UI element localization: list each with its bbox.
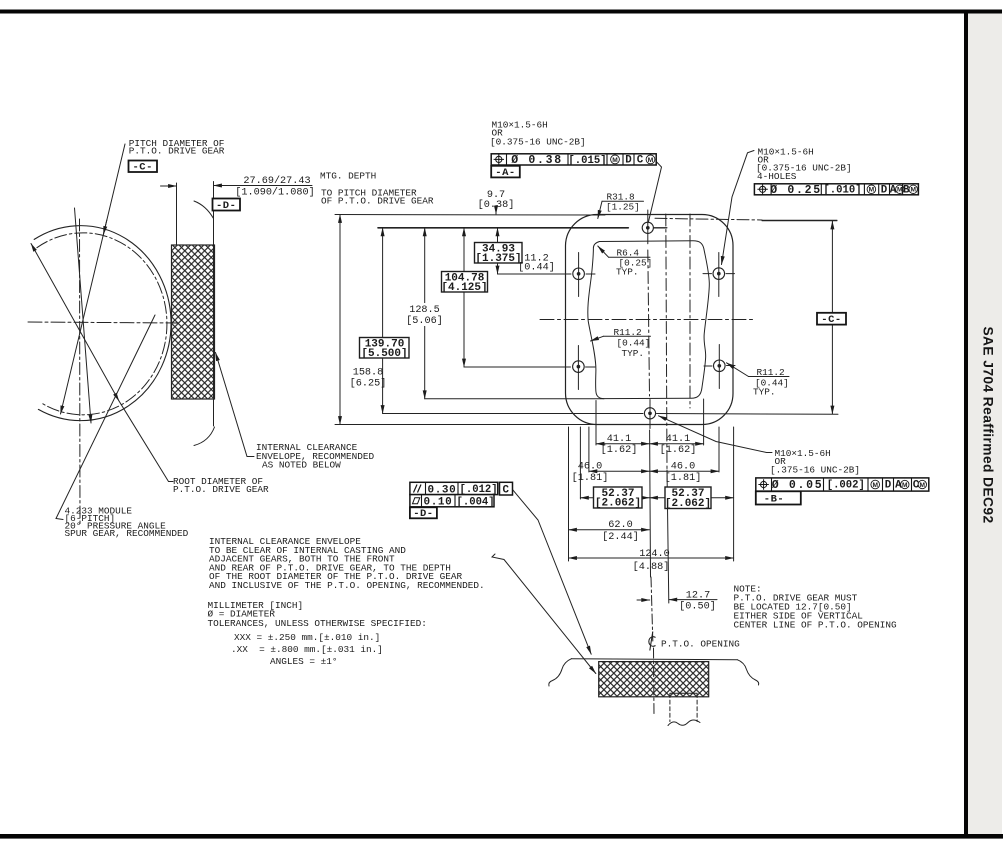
- root diameter arc: [34, 226, 171, 421]
- svg-text:[2.44]: [2.44]: [602, 531, 639, 543]
- svg-text:[4.125]: [4.125]: [441, 282, 487, 294]
- leader C box to section view: [512, 489, 591, 655]
- pitch leader arrowhead on arc: [103, 220, 106, 235]
- shaft break squiggle: [668, 720, 700, 726]
- svg-text:128.5: 128.5: [409, 305, 440, 316]
- dim 12.7 left arrow: [637, 599, 650, 601]
- svg-text:M: M: [902, 482, 908, 489]
- svg-text:[.010]: [.010]: [823, 185, 861, 197]
- upper-left hole vertical: [578, 253, 580, 297]
- gear view labels: [65, 138, 434, 539]
- svg-text:[0.44]: [0.44]: [617, 338, 651, 349]
- svg-text:OF P.T.O. DRIVE GEAR: OF P.T.O. DRIVE GEAR: [321, 196, 434, 207]
- pitch diameter leader line: [61, 144, 126, 414]
- wall top line: [571, 659, 737, 660]
- svg-text:4-HOLES: 4-HOLES: [757, 171, 797, 182]
- svg-text:TOLERANCES, UNLESS OTHERWISE S: TOLERANCES, UNLESS OTHERWISE SPECIFIED:: [208, 618, 427, 629]
- svg-text:TYP.: TYP.: [616, 267, 639, 278]
- svg-text:-A-: -A-: [495, 167, 515, 179]
- PTO CL lower dash-dot: [651, 577, 653, 641]
- view horizontal centerline: [540, 319, 753, 321]
- upper-right hole ticks: [703, 273, 735, 275]
- circled M modifiers frame B: [867, 185, 917, 194]
- ext line 46.0 left: [588, 427, 590, 472]
- boss bottom edge extension: [335, 424, 597, 426]
- ext line 46 right: [718, 427, 720, 472]
- gear band right line: [689, 214, 691, 408]
- svg-text:.XX = ±.800 mm.[±.031 in.]: .XX = ±.800 mm.[±.031 in.]: [231, 644, 383, 655]
- P.T.O. opening boss outline (rounded rect): [566, 215, 734, 425]
- ext line 62/124 left: [568, 427, 570, 561]
- svg-text:-C-: -C-: [132, 162, 152, 174]
- svg-text:[5.500]: [5.500]: [361, 348, 407, 360]
- upper-right hole vertical: [718, 253, 720, 297]
- svg-text:[0.38]: [0.38]: [478, 199, 515, 211]
- dim 41.1 right: [650, 443, 704, 445]
- 34.93 line to upper-left hole: [498, 273, 572, 275]
- box 104.78: [442, 272, 488, 293]
- radius labels: [606, 192, 789, 398]
- svg-text:TYP.: TYP.: [753, 387, 776, 398]
- mounting wall line (-D- face): [213, 182, 215, 427]
- datum -C- right: [817, 313, 846, 325]
- svg-text:CENTER LINE OF P.T.O. OPENING: CENTER LINE OF P.T.O. OPENING: [734, 620, 898, 631]
- circled M modifiers frame C: [871, 480, 927, 489]
- pitch line solid right part: [762, 219, 837, 221]
- svg-text:Ø 0.05: Ø 0.05: [772, 479, 824, 492]
- position symbol frame B: [757, 184, 767, 194]
- svg-text:XXX = ±.250 mm.[±.010 in.]: XXX = ±.250 mm.[±.010 in.]: [234, 632, 380, 643]
- svg-text:M: M: [897, 187, 903, 194]
- svg-text:[1.25]: [1.25]: [606, 202, 640, 213]
- svg-text:C: C: [503, 484, 510, 496]
- svg-text:M: M: [648, 157, 654, 164]
- svg-text:TYP.: TYP.: [622, 348, 645, 359]
- right border line: [964, 10, 968, 839]
- section centerline: [653, 648, 656, 716]
- pitch diameter arc: [37, 233, 167, 415]
- gear position centerline: [666, 214, 667, 470]
- datum -C- left: [129, 161, 158, 173]
- bottom notes: [208, 536, 898, 667]
- svg-text:[.015]: [.015]: [568, 155, 606, 167]
- svg-text:M: M: [910, 187, 916, 194]
- svg-text:[2.062]: [2.062]: [665, 498, 711, 510]
- hidden shaft line left: [669, 694, 671, 722]
- center ext line: [649, 430, 652, 577]
- leader R11.2 left: [591, 336, 604, 341]
- dim 46.0 left: [589, 470, 650, 472]
- PTO CL dash-dot upper: [648, 250, 650, 396]
- svg-text:ANGLES = ±1°: ANGLES = ±1°: [270, 656, 338, 667]
- svg-text:46.0: 46.0: [578, 462, 602, 473]
- svg-text:[.004]: [.004]: [457, 496, 495, 508]
- -C- top horizontal: [762, 220, 837, 222]
- svg-text:M: M: [869, 187, 875, 194]
- leader -A- frame to top hole: [648, 162, 661, 223]
- svg-text:SPUR GEAR, RECOMMENDED: SPUR GEAR, RECOMMENDED: [65, 528, 189, 539]
- svg-text:MTG. DEPTH: MTG. DEPTH: [320, 171, 376, 182]
- R6.4 label bar: [609, 256, 651, 258]
- svg-text:M: M: [920, 482, 926, 489]
- dim line 104.78: [463, 228, 465, 367]
- GDT FRAME B (position 0.25 4 holes): [754, 184, 918, 195]
- svg-text:C: C: [637, 155, 644, 167]
- dim line 34.93: [497, 228, 499, 274]
- dim line 128.5: [424, 228, 426, 399]
- bolt hole upper left: [573, 268, 585, 280]
- svg-text:M: M: [612, 157, 618, 164]
- lower-right hole ticks: [704, 365, 735, 368]
- tick right of top hole: [654, 227, 667, 229]
- pitch line across opening (dash-dot): [655, 218, 762, 220]
- unboxed stacked dims: [235, 175, 716, 613]
- leader R11.2 right: [727, 363, 749, 377]
- bottom hole line right to -C-: [657, 413, 839, 416]
- ext line 52.37 left: [579, 427, 581, 499]
- svg-text:[1.62]: [1.62]: [660, 444, 697, 456]
- leader R31.8: [598, 201, 602, 218]
- svg-text:41.1: 41.1: [607, 434, 631, 445]
- svg-text:R11.2: R11.2: [614, 327, 642, 338]
- dim 124.0: [569, 557, 734, 559]
- svg-text:[4.88]: [4.88]: [633, 561, 670, 573]
- svg-text:[0.44]: [0.44]: [518, 262, 555, 274]
- GDT FRAME A (position 0.38): [491, 154, 656, 165]
- svg-text:0.10: 0.10: [424, 497, 453, 509]
- tick right of upper-left hole: [586, 273, 595, 275]
- mtg depth dim line right: [214, 185, 313, 187]
- -C- dim vertical: [831, 221, 833, 414]
- envelope bottom line: [425, 398, 604, 400]
- ext line 124 right: [733, 427, 735, 561]
- svg-text:[1.62]: [1.62]: [601, 444, 638, 456]
- gear vertical centerline: [79, 219, 82, 525]
- DATUM BOXES: [129, 161, 847, 519]
- svg-text:[2.062]: [2.062]: [595, 498, 641, 510]
- dim line 158.8: [339, 215, 341, 425]
- bolt hole upper right: [713, 268, 725, 280]
- R31.8 label bar: [602, 200, 644, 202]
- internal clearance envelope contour: [588, 241, 710, 399]
- svg-text:[0.50]: [0.50]: [679, 601, 716, 613]
- gear horizontal centerline: [28, 322, 178, 323]
- svg-text:[1.375]: [1.375]: [475, 253, 521, 265]
- 104.78 line to lower-left hole: [464, 366, 571, 368]
- leader bottom-right note to bottom hole: [659, 416, 773, 453]
- svg-text:-C-: -C-: [821, 314, 841, 326]
- mtg depth dim arrow left: [161, 185, 177, 187]
- GDT FRAME C (position 0.05): [756, 478, 929, 491]
- bolt hole lower right: [714, 360, 726, 372]
- svg-text:AS NOTED BELOW: AS NOTED BELOW: [262, 460, 341, 471]
- centerline symbol PTO opening: [649, 632, 656, 651]
- dim 62.0: [569, 529, 650, 531]
- svg-text:R11.2: R11.2: [757, 367, 785, 378]
- wall break left: [549, 659, 572, 686]
- datum -D- gear: [213, 199, 241, 211]
- leader 4-HOLES note to upper-right hole: [722, 151, 755, 265]
- text 128.5 (white bg): [406, 303, 443, 326]
- svg-text:[.002]: [.002]: [827, 480, 865, 492]
- svg-text:[5.06]: [5.06]: [406, 315, 443, 327]
- top border bar: [0, 10, 1002, 14]
- gear left face extension: [176, 183, 178, 245]
- svg-text:Ø 0.38: Ø 0.38: [511, 154, 563, 167]
- leader internal clearance note to hatch: [216, 353, 255, 457]
- 9.7 down arrow: [495, 206, 497, 215]
- box 139.70: [360, 338, 410, 359]
- gear tooth hatched section: [172, 245, 215, 399]
- bolt hole bottom center: [644, 408, 655, 419]
- position symbol frame A: [494, 154, 504, 164]
- leader big note to section hatch: [492, 554, 596, 674]
- svg-text:12.7: 12.7: [686, 591, 710, 602]
- svg-text:[.375-16 UNC-2B]: [.375-16 UNC-2B]: [770, 465, 860, 476]
- ext line 41.1 right: [703, 399, 705, 445]
- parallelism symbol: [414, 485, 422, 493]
- bottom border bar: [0, 834, 1003, 839]
- boss top edge extension line: [335, 214, 605, 217]
- thread notes: [490, 120, 860, 476]
- gear position extension solid: [667, 470, 669, 603]
- wall break arc top: [194, 201, 214, 219]
- svg-text:AND INCLUSIVE OF THE P.T.O. OP: AND INCLUSIVE OF THE P.T.O. OPENING, REC…: [209, 580, 485, 591]
- svg-text:D: D: [885, 479, 892, 491]
- svg-text:[1.090/1.080]: [1.090/1.080]: [235, 187, 314, 199]
- dim line 139.70: [382, 228, 384, 414]
- svg-text:P.T.O. DRIVE GEAR: P.T.O. DRIVE GEAR: [173, 484, 269, 495]
- R11.2 right label bar: [749, 376, 790, 378]
- box 34.93: [475, 243, 523, 264]
- bottom hole line left: [383, 413, 643, 415]
- svg-text:158.8: 158.8: [353, 368, 384, 379]
- svg-text:P.T.O. DRIVE GEAR: P.T.O. DRIVE GEAR: [129, 146, 225, 157]
- dim 41.1 left: [596, 443, 650, 445]
- svg-text:D: D: [881, 184, 888, 196]
- ext line 41.1 left: [595, 401, 597, 446]
- section hatched wall: [599, 662, 709, 697]
- dim 52.37 right: [650, 497, 734, 499]
- lower-right hole vertical: [718, 345, 720, 389]
- svg-text:Ø 0.25: Ø 0.25: [770, 184, 822, 197]
- svg-text:46.0: 46.0: [671, 462, 695, 473]
- datum -B-: [756, 491, 801, 504]
- box 52.37 right: [665, 487, 711, 509]
- lower-left hole vertical: [577, 346, 579, 390]
- leader R6.4: [598, 246, 609, 257]
- svg-text:-B-: -B-: [764, 494, 784, 506]
- svg-text:27.69/27.43: 27.69/27.43: [243, 175, 310, 187]
- circled M modifiers frame A: [611, 155, 655, 164]
- svg-text:[.012]: [.012]: [460, 484, 498, 496]
- dim 46.0 right: [650, 470, 720, 472]
- dim 12.7 text bar: [669, 599, 717, 601]
- R11.2 left label bar: [603, 335, 650, 337]
- svg-text:SAE J704 Reaffirmed DEC92: SAE J704 Reaffirmed DEC92: [981, 326, 996, 523]
- position symbol frame C: [758, 479, 768, 489]
- svg-text:P.T.O. OPENING: P.T.O. OPENING: [661, 639, 740, 650]
- top hole vertical: [647, 210, 649, 244]
- dim 52.37 left: [580, 497, 649, 499]
- root diameter leader line: [31, 244, 119, 402]
- DIMENSION BOXES: [360, 243, 712, 509]
- module note leader: [56, 315, 155, 520]
- pressure angle line: [75, 208, 92, 423]
- svg-text:[1.81]: [1.81]: [572, 472, 609, 484]
- datum -D- frame: [410, 507, 437, 518]
- wall break right: [737, 660, 758, 685]
- svg-text:41.1: 41.1: [666, 434, 690, 445]
- tick right of lower-left hole: [586, 366, 596, 368]
- svg-text:D: D: [625, 155, 632, 167]
- svg-text:0.30: 0.30: [428, 484, 457, 496]
- wall break arc bottom: [194, 427, 215, 446]
- GDT FRAME D (parallelism / flatness): [410, 482, 513, 507]
- svg-text:[1.81]: [1.81]: [665, 472, 702, 484]
- svg-text:[0.375-16 UNC-2B]: [0.375-16 UNC-2B]: [490, 137, 586, 148]
- shaft top hidden line: [670, 692, 697, 694]
- top hole centerline reference (thick): [378, 227, 628, 229]
- svg-text:124.0: 124.0: [639, 549, 670, 560]
- hidden shaft line right: [696, 694, 698, 722]
- svg-text:M: M: [872, 482, 878, 489]
- bolt hole lower left: [573, 361, 585, 373]
- svg-text:-D-: -D-: [216, 200, 236, 212]
- svg-text:[6.25]: [6.25]: [350, 378, 387, 390]
- svg-text:62.0: 62.0: [608, 520, 632, 531]
- right margin strip: [968, 13, 1002, 834]
- flatness symbol: [413, 498, 420, 504]
- datum -A-: [491, 166, 520, 178]
- bottom hole vertical: [649, 400, 651, 429]
- root leader tail to text: [119, 401, 173, 482]
- bolt hole top center: [642, 222, 653, 233]
- box 52.37 left: [594, 487, 643, 508]
- svg-text:-D-: -D-: [413, 508, 433, 520]
